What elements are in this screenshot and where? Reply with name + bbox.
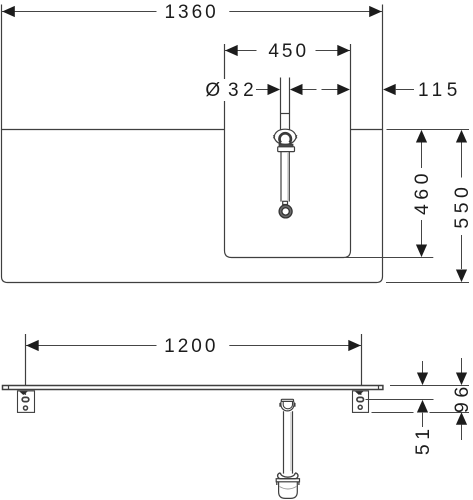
drain pipe right line <box>292 411 294 473</box>
dim 460 down arrow <box>416 245 427 258</box>
dim 96 down arrow <box>456 373 467 386</box>
dim 115 right-pointing arrow at basin edge <box>337 84 350 95</box>
dim 96/51 top extension line <box>390 385 469 387</box>
basin cutout <box>225 44 351 258</box>
trap collar <box>278 473 298 479</box>
drain flange bar <box>281 399 293 401</box>
dim 51 down arrow <box>417 373 428 386</box>
faucet nut band <box>279 144 293 146</box>
trap cup inner arc <box>280 487 297 490</box>
dim 1200 right extension line <box>361 334 363 386</box>
svg-text:1360: 1360 <box>164 2 218 23</box>
drain cup inner <box>283 402 292 409</box>
dim 1360 line <box>2 11 383 13</box>
svg-text:32: 32 <box>228 80 258 101</box>
faucet lever left foot <box>279 143 281 145</box>
faucet lever right foot <box>289 143 291 145</box>
right bracket body <box>353 391 369 413</box>
trap collar inner arc <box>281 473 296 477</box>
dim 51 slot-center extension line <box>366 399 434 401</box>
faucet body right tip notch <box>296 135 297 138</box>
drain pipe left line <box>283 411 285 473</box>
left bracket slot <box>22 397 29 401</box>
dim diameter-32 left-pointing arrow <box>290 84 303 95</box>
dim 1360 left extension line <box>1 5 3 130</box>
faucet spout left line <box>280 152 282 202</box>
slab right end tick <box>378 386 380 390</box>
faucet aerator ring shading <box>281 206 291 216</box>
dim 1200 right arrow <box>348 340 361 351</box>
dim 550 up arrow <box>456 130 467 143</box>
countertop outline (top view) <box>2 130 383 283</box>
svg-text:460: 460 <box>411 169 433 215</box>
right bracket clamp dot <box>360 393 362 395</box>
dim 550 line <box>461 141 463 269</box>
svg-text:115: 115 <box>418 80 462 101</box>
dim 1200 left arrow <box>26 340 39 351</box>
left bracket hole <box>24 406 28 410</box>
dim 96 upper line <box>461 358 463 373</box>
svg-text:450: 450 <box>268 41 309 62</box>
dim 460 bottom extension line <box>344 257 433 259</box>
dim 1360 left arrow <box>2 6 15 17</box>
dim 96 bottom extension line <box>372 412 470 414</box>
dim 1200 left extension line <box>25 334 27 386</box>
right bracket hole <box>358 405 362 409</box>
faucet spout right line <box>288 152 290 202</box>
dim 1360 right extension line <box>382 5 384 130</box>
faucet body left tip notch <box>273 135 274 138</box>
faucet lever horseshoe <box>279 133 290 142</box>
dim diameter-32 tail line <box>303 89 338 91</box>
faucet aerator outer circle <box>279 205 292 218</box>
dim 450 left arrow <box>225 45 238 56</box>
countertop slab (front view) <box>3 386 383 390</box>
tap hole left extension line <box>280 78 282 130</box>
dim 460 up arrow <box>416 130 427 143</box>
dim 51 up arrow <box>417 400 428 413</box>
dim 550 bottom extension line <box>386 282 469 284</box>
dim 51 lower line <box>422 413 424 427</box>
left bracket body <box>18 391 35 413</box>
svg-text:550: 550 <box>451 183 473 229</box>
drain nut right lug <box>294 403 296 407</box>
trap flange ring <box>276 479 299 482</box>
drain pipe inner highlight line <box>290 412 292 471</box>
svg-text:96: 96 <box>451 382 473 413</box>
faucet body (top view) <box>274 129 296 144</box>
right bracket clamp wedge <box>355 391 364 395</box>
svg-text:Ø: Ø <box>205 80 220 101</box>
dim 460/550 top extension line <box>387 129 470 131</box>
dim 96 lower line <box>461 425 463 441</box>
trap flange left tab <box>276 482 278 485</box>
trap flange right tab <box>298 482 300 485</box>
dim diameter-32 leader line <box>256 89 270 91</box>
left bracket clamp dot <box>24 393 26 395</box>
dim 460 line <box>421 141 423 245</box>
dim 115 tail line <box>396 89 414 91</box>
faucet aerator inner circle <box>282 208 289 215</box>
svg-text:51: 51 <box>412 424 434 455</box>
faucet spout back tick <box>281 113 290 115</box>
dim 96 up arrow <box>456 412 467 425</box>
tap hole right extension line <box>289 78 291 130</box>
dim 550 down arrow <box>456 270 467 283</box>
dim 450 line <box>225 50 351 52</box>
right bracket slot <box>357 397 364 401</box>
dim 1200 line <box>26 345 362 347</box>
dim 1360 right arrow <box>369 6 382 17</box>
svg-text:1200: 1200 <box>164 336 218 357</box>
drain cup outer <box>281 402 294 411</box>
drain nut left lug <box>279 403 281 407</box>
slab left end tick <box>8 386 10 390</box>
trap cup <box>279 482 298 499</box>
dim diameter-32 right-pointing arrow <box>268 84 281 95</box>
faucet flange <box>278 147 295 152</box>
dim 115 left-pointing arrow at countertop edge <box>383 84 396 95</box>
dim 450 right arrow <box>337 45 350 56</box>
dim 51 upper line <box>422 361 424 373</box>
left bracket clamp wedge <box>19 391 28 395</box>
faucet aerator tab <box>283 201 288 204</box>
faucet spout inner highlight line <box>287 153 289 200</box>
